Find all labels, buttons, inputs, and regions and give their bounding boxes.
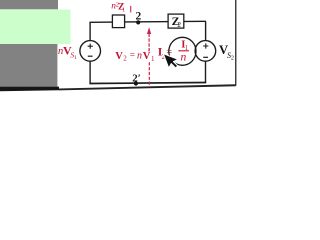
gray left column <box>0 44 57 87</box>
svg-text:V: V <box>143 51 151 62</box>
impedance Z2 <box>168 14 184 28</box>
svg-text:=: = <box>130 51 135 61</box>
wire top <box>89 21 205 22</box>
svg-text:1: 1 <box>122 7 125 14</box>
svg-text:n: n <box>137 51 142 62</box>
svg-text:2′: 2′ <box>132 72 141 84</box>
mouse cursor <box>163 49 181 70</box>
label n2Z1 <box>111 1 125 13</box>
svg-text:2: 2 <box>136 11 142 23</box>
voltage source VS2 <box>195 41 216 62</box>
voltage arrow V2 (dashed red) <box>147 27 151 86</box>
label I2 = <box>158 46 173 61</box>
label V2 = nV1 <box>115 51 155 64</box>
svg-text:1: 1 <box>151 55 155 63</box>
svg-text:2: 2 <box>231 55 234 61</box>
svg-text:2: 2 <box>177 20 181 29</box>
wire right branch top <box>205 21 207 40</box>
annotation circle around I1/n <box>169 37 196 65</box>
svg-text:2: 2 <box>123 55 127 63</box>
wire bottom <box>89 83 206 84</box>
fraction I1/n <box>178 38 189 63</box>
label VS2 <box>219 43 234 61</box>
impedance n2Z1 <box>112 15 124 28</box>
gray top bar <box>0 0 58 9</box>
svg-text:V: V <box>115 51 123 62</box>
black bar under gray column <box>0 87 59 92</box>
node 2 <box>136 20 140 24</box>
node 2' <box>134 81 138 85</box>
green highlight box <box>0 10 71 44</box>
red tick near node 2 <box>130 6 132 12</box>
voltage source nVS1 <box>80 41 101 62</box>
svg-text:1: 1 <box>74 55 77 61</box>
wire left branch top <box>89 23 91 41</box>
wire left branch bottom <box>89 61 91 83</box>
svg-text:n: n <box>181 51 187 64</box>
wire right branch bottom <box>205 61 207 83</box>
page right edge <box>235 0 236 86</box>
page bottom edge <box>59 84 236 90</box>
label Z2 <box>172 14 182 29</box>
